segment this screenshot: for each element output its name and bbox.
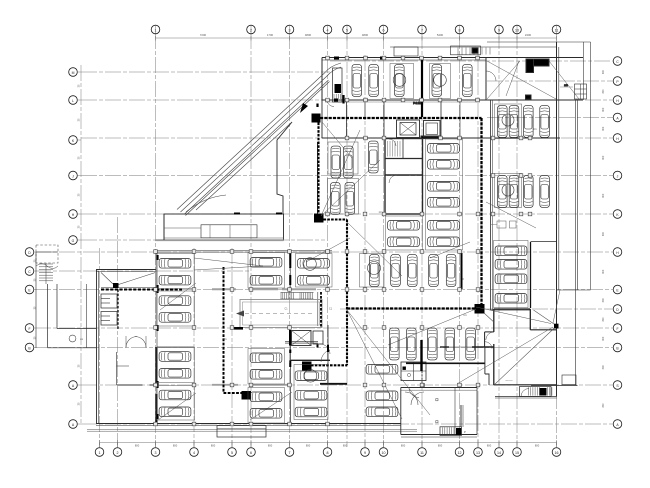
svg-text:G: G (72, 239, 75, 243)
axis bubble top x=383.5 (379, 25, 388, 34)
grid line x=251 (250, 33, 252, 447)
band V1 cars (370, 255, 380, 287)
svg-text:30: 30 (78, 402, 81, 405)
svg-text:L: L (72, 99, 74, 103)
grid line x=365 (364, 55, 366, 447)
heavy electrical trunk lines (101, 57, 485, 421)
svg-text:800: 800 (343, 444, 348, 448)
grid line x=459.5 (459, 33, 461, 447)
axis bubble bottom x=232 (228, 448, 237, 457)
drive aisle box (240, 300, 322, 328)
svg-text:C: C (616, 60, 619, 64)
axis bubble right y=61 (613, 57, 622, 66)
axis bubble right y=424 (613, 420, 622, 429)
grid line y=117.5 (487, 117, 612, 119)
svg-text:K: K (616, 213, 619, 217)
svg-text:8: 8 (327, 451, 329, 455)
stair A bottom (440, 427, 462, 436)
trunk x=223.5 (223, 267, 225, 393)
svg-text:300: 300 (602, 317, 605, 322)
black box left wing (113, 283, 119, 288)
grid line y=175.5 (81, 175, 612, 177)
axis bubble left y=385 (69, 381, 78, 390)
svg-text:800: 800 (268, 444, 273, 448)
svg-text:E: E (616, 288, 619, 292)
svg-text:F: F (616, 327, 618, 331)
svg-text:13: 13 (379, 210, 382, 214)
black wall x=156.4 south (155, 347, 157, 386)
axis bubble bottom x=383.5 (379, 448, 388, 457)
black bar x=461 (V1 east) (461, 253, 463, 289)
svg-text:C1: C1 (463, 313, 467, 317)
grid line x=347 (346, 33, 348, 447)
svg-text:13: 13 (476, 451, 480, 455)
axis bubble left y=252 (25, 248, 34, 257)
car rows middle column (250, 258, 282, 268)
axis bubble right y=81 (613, 77, 622, 86)
parapet / vent boxes top (390, 46, 556, 48)
center aisle + stairs (157, 289, 347, 423)
grid line y=138 (81, 137, 612, 139)
corridor walls (35, 252, 37, 348)
wing bottom wall (96, 423, 401, 425)
axis bubble bottom x=517 (513, 448, 522, 457)
inner jog walls (485, 331, 494, 333)
black seg below aisle (234, 327, 243, 330)
elevator shafts (397, 120, 420, 138)
axis bubble right y=117.5 (613, 113, 622, 122)
axis bubble top x=459.5 (455, 25, 464, 34)
entry rooms below band (321, 100, 323, 138)
stair lobby block (385, 139, 423, 215)
axis bubble right y=309 (613, 305, 622, 314)
axis bubble top x=499 (495, 25, 504, 34)
axis bubble left y=424 (69, 420, 78, 429)
WC east wall black dashes (117, 290, 119, 331)
car rows center-south x365 (366, 365, 398, 375)
svg-text:C: C (28, 270, 31, 274)
building outer walls (155, 42, 591, 396)
big door arcs (405, 392, 424, 405)
WC rooms (101, 294, 117, 308)
svg-text:800: 800 (401, 444, 406, 448)
svg-text:xxx xxx: xxx xxx (505, 380, 513, 382)
grid line x=422 (421, 33, 423, 447)
trunk y=289.5 left wing (101, 289, 182, 291)
grid line x=383.5 (383, 33, 385, 447)
axis bubble left y=214 (69, 210, 78, 219)
svg-text:300: 300 (602, 298, 605, 303)
svg-text:300: 300 (602, 336, 605, 341)
axis bubble right y=347.5 (613, 343, 622, 352)
vertical car pair x330 y182 (331, 183, 341, 215)
trunk horizontal y=118 (320, 117, 482, 119)
car rows right-mid column (298, 259, 330, 269)
grid line x=81 (80, 65, 82, 424)
column grid squares (154, 56, 532, 426)
black bar x=421.5 top band (421, 58, 423, 117)
dim boxes right col aisle (497, 221, 506, 228)
axis bubble top x=155.5 (151, 25, 160, 34)
svg-text:A: A (616, 423, 619, 427)
small annotation texts (223, 127, 537, 341)
svg-text:300: 300 (602, 403, 605, 408)
grid line y=424 (81, 423, 612, 425)
grid line x=478 (477, 55, 479, 447)
grid line y=252 (35, 251, 612, 253)
axis bubble right y=138 (613, 134, 622, 143)
axis bubble left y=289.5 (25, 285, 34, 294)
black duct L-shape (526, 59, 549, 66)
grid line y=271 (35, 270, 250, 272)
grid line x=556.5 (556, 33, 558, 447)
trunk vertical x=481.5 (480, 118, 482, 304)
svg-text:800: 800 (211, 444, 216, 448)
grid line x=99.5 (99, 248, 101, 447)
band exit details (342, 95, 344, 104)
grid line x=117.5 (117, 217, 119, 447)
axis bubble top x=327.5 (323, 25, 332, 34)
axis bubble top x=251 (247, 25, 256, 34)
svg-text:2: 2 (117, 451, 119, 455)
ramp diagonal edges (177, 63, 344, 216)
axis bubble bottom x=117.5 (113, 448, 122, 457)
black box bottom mid (242, 391, 252, 400)
svg-text:30: 30 (78, 225, 81, 228)
svg-text:5400: 5400 (437, 33, 444, 37)
svg-text:4800: 4800 (362, 33, 369, 37)
node B (475, 304, 485, 314)
grid line y=100 (81, 99, 612, 101)
car rows right column (495, 246, 527, 256)
axis bubble bottom x=499 (495, 448, 504, 457)
svg-text:P: P (616, 80, 619, 84)
ramp enclosure (164, 214, 284, 240)
right site boundary (590, 42, 592, 290)
heavy dashed x=321 aisle east (320, 292, 322, 327)
trunk vertical x=347 (346, 220, 348, 366)
axis bubble right y=289.5 (613, 285, 622, 294)
junction box (554, 324, 559, 329)
black box small NE (526, 95, 532, 99)
single vertical car x367 (369, 141, 379, 173)
triangle room + diagonals (101, 287, 156, 289)
ramp curve top into band (325, 63, 342, 77)
grid line x=517 (516, 33, 518, 447)
fan room diagonals (487, 61, 556, 99)
axis bubble bottom x=155.5 (151, 448, 160, 457)
south-east block (406, 309, 576, 398)
node A (314, 214, 324, 223)
axis bubble bottom x=327.5 (323, 448, 332, 457)
ramp stall + black box (333, 68, 343, 102)
svg-text:800: 800 (535, 444, 540, 448)
east wall x=328 (327, 325, 329, 384)
west entry wall (277, 122, 292, 214)
svg-text:300: 300 (602, 365, 605, 370)
grid line x=194 (193, 248, 195, 447)
trunk L to box (224, 392, 242, 394)
svg-text:10: 10 (382, 451, 386, 455)
svg-text:300: 300 (602, 193, 605, 198)
top band cars (352, 65, 362, 97)
axis bubble left y=175.5 (69, 171, 78, 180)
axis bubble left y=100 (69, 96, 78, 105)
axis bubble bottom x=478 (474, 448, 483, 457)
axis bubble bottom x=459.5 (455, 448, 464, 457)
svg-text:AL: AL (80, 337, 84, 341)
car rows center x387 (388, 221, 420, 231)
south-center rooms (212, 362, 477, 437)
svg-text:E: E (28, 288, 31, 292)
axis bubble top x=517 (513, 25, 522, 34)
axis bubble left y=347.5 (25, 343, 34, 352)
svg-text:14: 14 (497, 451, 501, 455)
bottom protrusion (217, 426, 266, 438)
grid line x=232 (231, 248, 233, 447)
axis bubble top x=556.5 (552, 25, 561, 34)
svg-text:A: A (616, 116, 619, 120)
grid line y=240 (81, 239, 325, 241)
lobby stair hatch (388, 141, 401, 157)
black bar west of elevator (289, 330, 291, 346)
svg-text:M: M (72, 71, 75, 75)
axis bubble bottom x=99.5 (95, 448, 104, 457)
svg-text:300: 300 (602, 89, 605, 94)
svg-text:30: 30 (78, 156, 81, 159)
svg-text:7200: 7200 (200, 33, 207, 37)
svg-text:A: A (72, 384, 75, 388)
svg-text:300: 300 (602, 69, 605, 74)
svg-text:5: 5 (231, 451, 233, 455)
svg-text:7: 7 (289, 451, 291, 455)
axis bubble bottom x=289.5 (285, 448, 294, 457)
structural grid (35, 33, 612, 447)
vertical car pair x330 y145 (331, 146, 341, 178)
svg-text:300: 300 (602, 231, 605, 236)
svg-text:800: 800 (173, 444, 178, 448)
right parking column walls (491, 100, 557, 310)
svg-text:3: 3 (155, 451, 157, 455)
top parking band walls (322, 57, 583, 59)
axis bubble right y=252 (613, 248, 622, 257)
svg-text:B: B (616, 346, 619, 350)
svg-text:C1: C1 (329, 308, 333, 311)
divider wall x=290.3 jambs (289, 252, 291, 290)
axis bubble bottom x=251 (247, 448, 256, 457)
svg-text:H: H (616, 137, 619, 141)
storage rooms below mid (290, 343, 292, 424)
grid line y=385 (81, 384, 612, 386)
svg-text:C1: C1 (284, 308, 288, 311)
fan room NE (485, 58, 487, 100)
svg-text:800: 800 (487, 444, 492, 448)
ramp curve bottom (186, 195, 226, 212)
axis bubble left y=72 (69, 68, 78, 77)
svg-text:D: D (28, 251, 31, 255)
door arcs storage (320, 344, 330, 362)
heavy wall y=383.8 (320, 383, 347, 385)
stair B (520, 387, 552, 397)
small room SE top (494, 308, 531, 310)
trunk node top (318,118) (312, 114, 321, 123)
axis bubble top x=289.5 (285, 25, 294, 34)
svg-text:4800: 4800 (305, 33, 312, 37)
axis bubble bottom x=422 (418, 448, 427, 457)
svg-text:300: 300 (602, 107, 605, 112)
svg-text:H: H (616, 251, 619, 255)
elevator mid (292, 331, 312, 346)
right col band cars (498, 106, 508, 138)
trunk horizontal y=308.5 (347, 307, 475, 309)
grid line x=155.5 (155, 33, 157, 447)
svg-text:800: 800 (438, 444, 443, 448)
svg-text:H: H (72, 213, 75, 217)
svg-text:H: H (616, 99, 619, 103)
axis bubble left y=240 (69, 236, 78, 245)
svg-text:300: 300 (602, 126, 605, 131)
grid line x=289.5 (289, 33, 291, 447)
svg-text:1700: 1700 (267, 33, 274, 37)
axis bubble right y=385 (613, 381, 622, 390)
axis bubble left y=140 (69, 136, 78, 145)
left wing (36, 245, 417, 437)
grid line x=327.5 (327, 33, 329, 447)
axis bubble bottom x=194 (190, 448, 199, 457)
svg-text:2400: 2400 (525, 33, 532, 37)
svg-text:30: 30 (78, 84, 81, 87)
car rows left column (159, 259, 191, 269)
svg-text:S: S (616, 384, 619, 388)
big room SE (493, 309, 495, 332)
parking cars (156, 64, 549, 424)
lower rooms left wing (116, 352, 118, 385)
axis bubble right y=328 (613, 324, 622, 333)
svg-text:6: 6 (250, 451, 252, 455)
circle symbol corridor (69, 335, 76, 342)
svg-text:11: 11 (420, 451, 424, 455)
svg-text:F: F (28, 327, 30, 331)
WC block center (401, 362, 426, 381)
svg-text:30: 30 (78, 364, 81, 367)
svg-text:C1: C1 (223, 337, 227, 341)
svg-text:C1: C1 (533, 127, 537, 131)
svg-text:J: J (72, 174, 74, 178)
band V2 cars (390, 328, 400, 360)
dimension lines (34, 25, 606, 448)
svg-text:30: 30 (78, 118, 81, 121)
axis bubble right y=100 (613, 96, 622, 105)
ramp arrow (300, 103, 308, 113)
black box storage (302, 362, 312, 371)
black jamb marks top band (334, 57, 339, 60)
axis bubble right y=214 (613, 210, 622, 219)
svg-text:30: 30 (78, 193, 81, 196)
trunk west leg y=365.3 (311, 364, 347, 366)
svg-text:300: 300 (602, 269, 605, 274)
svg-text:K: K (72, 139, 75, 143)
equipment box right edge (575, 84, 587, 99)
grid line x=499 (498, 33, 500, 447)
axis bubble top x=422 (418, 25, 427, 34)
grid line y=81 (487, 80, 612, 82)
axis bubble right y=175.5 (613, 171, 622, 180)
connector node A east (324, 218, 348, 220)
axis bubble left y=271 (25, 267, 34, 276)
svg-text:A: A (72, 423, 75, 427)
stair hatches mid (281, 293, 313, 300)
grid line y=328 (35, 327, 612, 329)
trunk vertical x=318.5 (317, 123, 319, 215)
wall x461 above stair A (460, 405, 462, 427)
svg-text:D: D (616, 308, 619, 312)
svg-text:16: 16 (555, 451, 559, 455)
svg-text:9: 9 (364, 451, 366, 455)
axis bubble bottom x=556.5 (552, 448, 561, 457)
svg-text:800: 800 (135, 444, 140, 448)
car rows center x427 (428, 144, 460, 154)
axis bubble left y=328 (25, 324, 34, 333)
grid line y=347.5 (35, 347, 612, 349)
wall x=157 left column + jambs (156, 252, 158, 420)
leader diagonals (158, 122, 560, 420)
stair NW dashed (36, 245, 58, 263)
svg-text:3: 3 (462, 278, 464, 281)
south big room (400, 388, 402, 435)
stall boxes right col (495, 104, 522, 139)
axis bubble top x=347 (343, 25, 352, 34)
SE diagonals (494, 326, 557, 385)
svg-text:15: 15 (515, 451, 519, 455)
grid line y=214 (81, 213, 612, 215)
svg-text:B: B (28, 346, 31, 350)
grid line y=309 (340, 308, 612, 310)
wing west wall (96, 269, 98, 424)
grid line y=289.5 (35, 289, 612, 291)
right strip box (562, 375, 576, 385)
grid line y=72 (81, 71, 330, 73)
gray wall above aisle (212, 288, 236, 290)
axis bubble bottom x=365 (361, 448, 370, 457)
svg-text:P: P (464, 430, 466, 434)
svg-text:J: J (617, 174, 619, 178)
svg-text:800: 800 (306, 444, 311, 448)
svg-text:4: 4 (193, 451, 195, 455)
svg-text:300: 300 (602, 155, 605, 160)
black bar x=421.5 south (420, 340, 422, 371)
grid line y=61 (330, 60, 612, 62)
lobby door arcs (126, 337, 146, 348)
svg-text:12: 12 (458, 451, 462, 455)
svg-text:1: 1 (99, 451, 101, 455)
